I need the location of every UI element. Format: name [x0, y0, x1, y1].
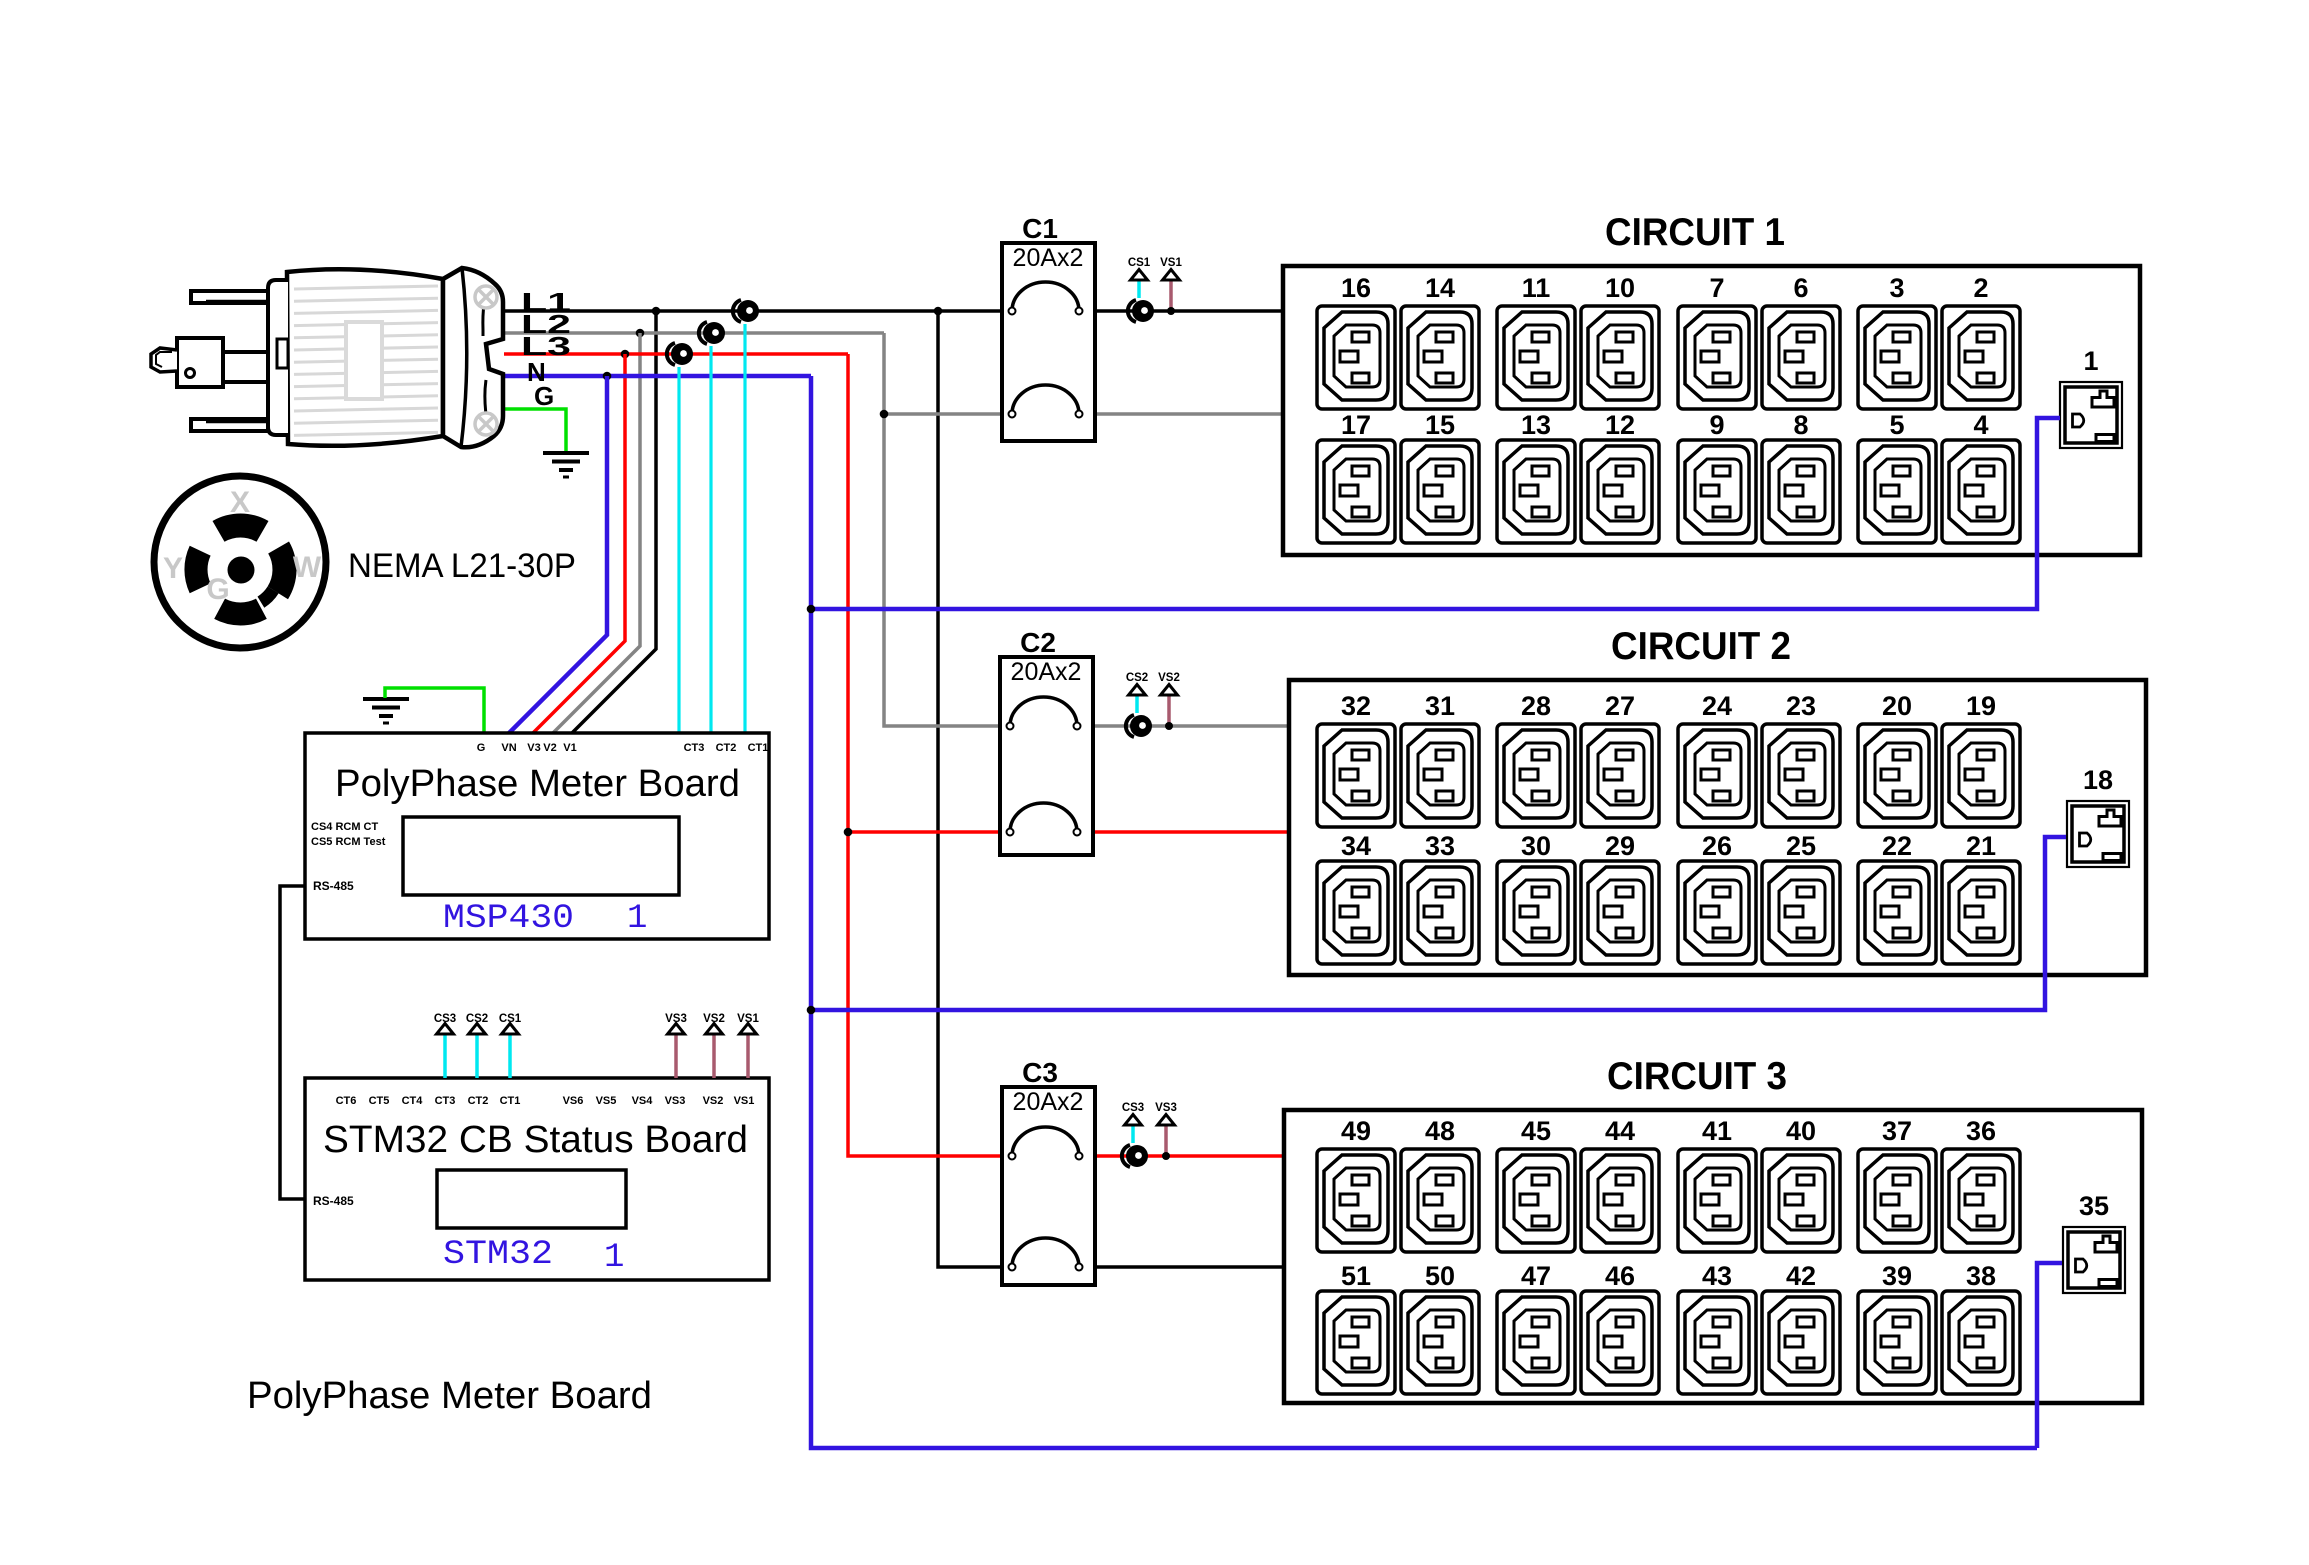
junction N bus / circuit 2 return [807, 1006, 816, 1015]
wire N return circuit 3 [2037, 1263, 2062, 1448]
outlet 10 [1581, 306, 1659, 409]
svg-text:27: 27 [1605, 691, 1635, 721]
outlet 41 [1678, 1149, 1756, 1252]
svg-text:51: 51 [1341, 1261, 1371, 1291]
PolyPhase Meter Board U1 [305, 733, 769, 939]
svg-text:20Ax2: 20Ax2 [1013, 1088, 1084, 1116]
wire C3 output (L3) to circuit 3 bank [1081, 1154, 1284, 1158]
outlet 11 [1497, 306, 1575, 409]
wire C1 output (L1) to circuit 1 bank [1079, 309, 1283, 313]
svg-text:1: 1 [627, 900, 647, 938]
outlet 46 [1581, 1291, 1659, 1394]
wire L2 vertical to breakers C1/C2 [884, 333, 1002, 726]
wire CS1 stub (cyan) [1137, 280, 1141, 298]
outlet 35 (NEMA 5-15) [2063, 1227, 2125, 1293]
wire G (green) from plug to earth [504, 409, 566, 452]
svg-text:8: 8 [1793, 410, 1808, 440]
junction VS3 tap [1162, 1152, 1170, 1160]
svg-text:1: 1 [2083, 346, 2098, 376]
svg-text:37: 37 [1882, 1116, 1912, 1146]
arrow CS3 [437, 1024, 454, 1035]
svg-text:38: 38 [1966, 1261, 1996, 1291]
outlet 28 [1497, 724, 1575, 827]
svg-text:23: 23 [1786, 691, 1816, 721]
svg-text:CS1: CS1 [499, 1013, 522, 1025]
svg-text:15: 15 [1425, 410, 1455, 440]
wire VS1 (voltage sense) into STM32 [746, 1034, 750, 1078]
wire L1 from plug to breaker C1 [504, 309, 1012, 313]
outlet 6 [1762, 306, 1840, 409]
svg-text:VS1: VS1 [737, 1013, 759, 1025]
svg-text:G: G [206, 573, 229, 606]
svg-text:16: 16 [1341, 273, 1371, 303]
arrow VS2 [706, 1024, 723, 1035]
junction N / VN tap [603, 372, 612, 381]
svg-text:STM32 CB Status Board: STM32 CB Status Board [323, 1119, 748, 1161]
arrow VS3 [668, 1024, 685, 1035]
svg-text:CT3: CT3 [435, 1095, 456, 1107]
outlet 39 [1858, 1291, 1936, 1394]
outlet 51 [1317, 1291, 1395, 1394]
svg-text:30: 30 [1521, 831, 1551, 861]
svg-text:CT3: CT3 [684, 742, 705, 754]
wire CS2 (cyan) into STM32 [475, 1034, 479, 1078]
arrow VS1 [1163, 270, 1180, 281]
svg-text:20Ax2: 20Ax2 [1011, 658, 1082, 686]
svg-text:3: 3 [1889, 273, 1904, 303]
svg-text:17: 17 [1341, 410, 1371, 440]
svg-text:43: 43 [1702, 1261, 1732, 1291]
breaker C2 20Ax2 [1000, 657, 1093, 855]
svg-text:CS2: CS2 [466, 1013, 488, 1025]
svg-text:RS-485: RS-485 [313, 1194, 354, 1208]
outlet 25 [1762, 861, 1840, 964]
outlet 4 [1942, 440, 2020, 543]
svg-text:G: G [534, 381, 554, 411]
svg-text:22: 22 [1882, 831, 1912, 861]
wire L1 vertical feed to breaker C3 [938, 311, 1013, 1267]
svg-text:CIRCUIT 2: CIRCUIT 2 [1611, 625, 1791, 668]
CT donut CS3 on breaker output [1122, 1145, 1148, 1167]
wire VS3 (voltage sense) into STM32 [674, 1034, 678, 1078]
display window U1 [403, 817, 679, 895]
wire CS1 (cyan) into STM32 [508, 1034, 512, 1078]
outlet 47 [1497, 1291, 1575, 1394]
svg-text:7: 7 [1709, 273, 1724, 303]
outlet 24 [1678, 724, 1756, 827]
svg-text:PolyPhase Meter Board: PolyPhase Meter Board [335, 763, 740, 805]
wire N neutral bus vertical [811, 376, 2037, 1448]
svg-text:12: 12 [1605, 410, 1635, 440]
svg-text:44: 44 [1605, 1116, 1635, 1146]
svg-text:35: 35 [2079, 1191, 2109, 1221]
svg-text:32: 32 [1341, 691, 1371, 721]
outlet 21 [1942, 861, 2020, 964]
outlet 27 [1581, 724, 1659, 827]
svg-text:2: 2 [1973, 273, 1988, 303]
svg-text:5: 5 [1889, 410, 1904, 440]
svg-text:V2: V2 [543, 742, 556, 754]
svg-text:VS3: VS3 [665, 1095, 686, 1107]
junction L3 / V3 tap [621, 350, 630, 359]
svg-text:41: 41 [1702, 1116, 1732, 1146]
svg-text:X: X [230, 486, 250, 519]
plug pin G (middle blade with hole) [151, 338, 270, 387]
svg-text:40: 40 [1786, 1116, 1816, 1146]
arrow CS1 [502, 1024, 519, 1035]
connector face NEMA L21-30P [154, 476, 326, 648]
wire N return circuit 2 [811, 837, 2066, 1010]
wire CT3 (cyan) to meter board [677, 367, 680, 733]
wire VS1 stub (voltage sense) [1169, 280, 1173, 311]
outlet 42 [1762, 1291, 1840, 1394]
svg-text:39: 39 [1882, 1261, 1912, 1291]
svg-text:46: 46 [1605, 1261, 1635, 1291]
svg-text:CS3: CS3 [1122, 1102, 1144, 1114]
svg-text:CS3: CS3 [434, 1013, 456, 1025]
svg-text:1: 1 [604, 1239, 624, 1277]
svg-text:45: 45 [1521, 1116, 1551, 1146]
breaker C3 20Ax2 [1002, 1087, 1095, 1285]
STM32 CB Status Board U2 [305, 1078, 769, 1280]
svg-text:V1: V1 [563, 742, 576, 754]
svg-text:VN: VN [501, 742, 516, 754]
svg-text:CS1: CS1 [1128, 257, 1151, 269]
wire VS3 stub (voltage sense) [1164, 1125, 1168, 1156]
outlet 26 [1678, 861, 1756, 964]
svg-text:48: 48 [1425, 1116, 1455, 1146]
outlet 33 [1401, 861, 1479, 964]
wire CT2 (cyan) to meter board [709, 346, 712, 733]
slot G [214, 599, 267, 626]
arrow VS3 [1158, 1115, 1175, 1126]
svg-text:47: 47 [1521, 1261, 1551, 1291]
svg-text:14: 14 [1425, 273, 1455, 303]
svg-text:CT5: CT5 [369, 1095, 390, 1107]
outlet 36 [1942, 1149, 2020, 1252]
display window U2 [437, 1170, 626, 1228]
svg-text:Y: Y [163, 552, 183, 585]
arrow VS2 [1161, 685, 1178, 696]
arrow CS2 [1129, 685, 1146, 696]
wire V2 sense (gray) to meter board [553, 333, 640, 733]
wire L2 (gray) from plug [504, 331, 884, 335]
svg-text:VS1: VS1 [734, 1095, 755, 1107]
outlet 22 [1858, 861, 1936, 964]
wire CS3 stub (cyan) [1131, 1125, 1135, 1143]
svg-text:20Ax2: 20Ax2 [1013, 244, 1084, 272]
outlet 20 [1858, 724, 1936, 827]
plug pin X (top blade) [191, 291, 268, 303]
outlet 45 [1497, 1149, 1575, 1252]
svg-text:11: 11 [1522, 273, 1551, 303]
wire VN sense (blue) to meter board [509, 376, 607, 733]
svg-text:VS5: VS5 [596, 1095, 617, 1107]
svg-text:18: 18 [2083, 765, 2113, 795]
junction N bus / circuit 1 return [807, 605, 816, 614]
outlet 29 [1581, 861, 1659, 964]
wire RS-485 bus between boards [280, 886, 305, 1199]
wire CS3 (cyan) into STM32 [443, 1034, 447, 1078]
outlet 44 [1581, 1149, 1659, 1252]
junction VS2 tap [1165, 722, 1173, 730]
outlet 3 [1858, 306, 1936, 409]
outlet 2 [1942, 306, 2020, 409]
outlet 34 [1317, 861, 1395, 964]
outlet 7 [1678, 306, 1756, 409]
svg-text:31: 31 [1425, 691, 1455, 721]
plug P1 NEMA L21-30P (side view) [268, 268, 503, 447]
breaker C1 20Ax2 [1002, 243, 1095, 441]
svg-text:CIRCUIT 1: CIRCUIT 1 [1605, 211, 1785, 254]
wire VS2 stub (voltage sense) [1167, 695, 1171, 726]
wire N (blue) from plug [504, 374, 811, 379]
outlet 16 [1317, 306, 1395, 409]
svg-text:VS2: VS2 [703, 1095, 724, 1107]
outlet bank CIRCUIT 2 [1289, 680, 2146, 975]
svg-text:CS5 RCM Test: CS5 RCM Test [311, 836, 386, 848]
svg-text:CT1: CT1 [748, 742, 769, 754]
svg-text:28: 28 [1521, 691, 1551, 721]
outlet 1 (NEMA 5-15) [2060, 382, 2122, 448]
svg-text:V3: V3 [527, 742, 540, 754]
wire G (green) to meter board G pin [385, 688, 484, 733]
outlet 30 [1497, 861, 1575, 964]
svg-text:VS3: VS3 [1155, 1102, 1177, 1114]
wire V1 sense (black) to meter board [572, 311, 656, 733]
outlet 12 [1581, 440, 1659, 543]
junction VS1 tap [1167, 307, 1175, 315]
svg-text:CT6: CT6 [336, 1095, 357, 1107]
svg-text:STM32: STM32 [443, 1236, 553, 1274]
slot X [213, 513, 269, 541]
svg-text:33: 33 [1425, 831, 1455, 861]
wire N return circuit 1 [811, 418, 2060, 609]
svg-text:24: 24 [1702, 691, 1732, 721]
svg-text:PolyPhase Meter Board: PolyPhase Meter Board [247, 1375, 652, 1417]
CT donut on L2 (CT2) [699, 322, 725, 344]
junction L3 / C2 branch [844, 828, 853, 837]
outlet 43 [1678, 1291, 1756, 1394]
svg-text:CS4 RCM CT: CS4 RCM CT [311, 821, 379, 833]
svg-text:25: 25 [1786, 831, 1816, 861]
wire C2 output (L2) to circuit 2 bank [1077, 724, 1289, 728]
wire VS2 (voltage sense) into STM32 [712, 1034, 716, 1078]
outlet 37 [1858, 1149, 1936, 1252]
outlet bank CIRCUIT 3 [1284, 1110, 2142, 1403]
svg-text:G: G [477, 742, 486, 754]
outlet bank CIRCUIT 1 [1283, 266, 2140, 555]
wire C1 output (L2) to circuit 1 bank [1079, 412, 1283, 416]
svg-text:C3: C3 [1022, 1057, 1058, 1088]
svg-text:RS-485: RS-485 [313, 879, 354, 893]
outlet 23 [1762, 724, 1840, 827]
outlet 50 [1401, 1291, 1479, 1394]
outlet 38 [1942, 1291, 2020, 1394]
arrow VS1 [740, 1024, 757, 1035]
svg-text:VS3: VS3 [665, 1013, 687, 1025]
ground symbol at meter board G [363, 699, 409, 723]
svg-text:29: 29 [1605, 831, 1635, 861]
svg-text:C1: C1 [1022, 213, 1058, 244]
svg-text:10: 10 [1605, 273, 1635, 303]
svg-text:C2: C2 [1020, 627, 1056, 658]
svg-text:VS2: VS2 [703, 1013, 725, 1025]
svg-text:13: 13 [1521, 410, 1551, 440]
arrow CS1 [1131, 270, 1148, 281]
outlet 32 [1317, 724, 1395, 827]
outlet 19 [1942, 724, 2020, 827]
junction L1 / V1 tap [652, 307, 661, 316]
wire C3 output (L1) to circuit 3 bank [1081, 1265, 1284, 1269]
outlet 48 [1401, 1149, 1479, 1252]
svg-text:20: 20 [1882, 691, 1912, 721]
outlet 5 [1858, 440, 1936, 543]
svg-text:19: 19 [1966, 691, 1996, 721]
svg-text:36: 36 [1966, 1116, 1996, 1146]
outlet 15 [1401, 440, 1479, 543]
svg-text:VS1: VS1 [1160, 257, 1182, 269]
outlet 14 [1401, 306, 1479, 409]
svg-text:26: 26 [1702, 831, 1732, 861]
svg-text:CS2: CS2 [1126, 672, 1148, 684]
slot Y [184, 546, 210, 593]
svg-text:MSP430: MSP430 [443, 900, 574, 938]
svg-text:6: 6 [1793, 273, 1808, 303]
junction L2 / V2 tap [636, 329, 645, 338]
ground symbol at plug G [543, 453, 589, 477]
outlet 9 [1678, 440, 1756, 543]
plug pin W (bottom blade) [191, 419, 268, 431]
wire C2 output (L3) to circuit 2 bank [1077, 830, 1289, 834]
svg-text:4: 4 [1973, 410, 1988, 440]
svg-text:CT1: CT1 [500, 1095, 521, 1107]
CT donut on L3 (CT3) [667, 343, 693, 365]
svg-text:49: 49 [1341, 1116, 1371, 1146]
wire CS2 stub (cyan) [1135, 695, 1139, 713]
svg-text:VS6: VS6 [563, 1095, 584, 1107]
junction L2 / C1 branch [880, 410, 889, 419]
wire CT1 (cyan) to meter board [743, 324, 746, 733]
svg-text:21: 21 [1966, 831, 1996, 861]
arrow CS3 [1125, 1115, 1142, 1126]
svg-text:CT4: CT4 [402, 1095, 424, 1107]
junction L1 / C3 feed [934, 307, 943, 316]
outlet 8 [1762, 440, 1840, 543]
wire L3 branch to breaker C2 bottom pole [848, 830, 1002, 834]
svg-text:42: 42 [1786, 1261, 1816, 1291]
svg-text:NEMA L21-30P: NEMA L21-30P [348, 547, 576, 585]
wire L3 vertical to breakers C2/C3 [848, 354, 1002, 1156]
wire L2 branch to breaker C1 bottom pole [884, 412, 1012, 416]
wire V3 sense (red) to meter board [533, 354, 625, 733]
outlet 18 (NEMA 5-15) [2067, 801, 2129, 867]
outlet 31 [1401, 724, 1479, 827]
arrow CS2 [469, 1024, 486, 1035]
svg-text:VS2: VS2 [1158, 672, 1180, 684]
outlet 13 [1497, 440, 1575, 543]
wire L3 (red) from plug [504, 352, 848, 356]
svg-text:CT2: CT2 [716, 742, 737, 754]
svg-text:W: W [293, 551, 322, 584]
CT donut on L1 (CT1) [733, 300, 759, 322]
svg-text:34: 34 [1341, 831, 1371, 861]
CT donut CS1 on breaker output [1128, 300, 1154, 322]
svg-text:VS4: VS4 [632, 1095, 654, 1107]
svg-text:9: 9 [1709, 410, 1724, 440]
svg-text:50: 50 [1425, 1261, 1455, 1291]
outlet 49 [1317, 1149, 1395, 1252]
svg-text:CIRCUIT 3: CIRCUIT 3 [1607, 1055, 1787, 1098]
outlet 17 [1317, 440, 1395, 543]
outlet 40 [1762, 1149, 1840, 1252]
CT donut CS2 on breaker output [1126, 715, 1152, 737]
slot W (locking) [268, 542, 297, 600]
svg-text:CT2: CT2 [468, 1095, 489, 1107]
